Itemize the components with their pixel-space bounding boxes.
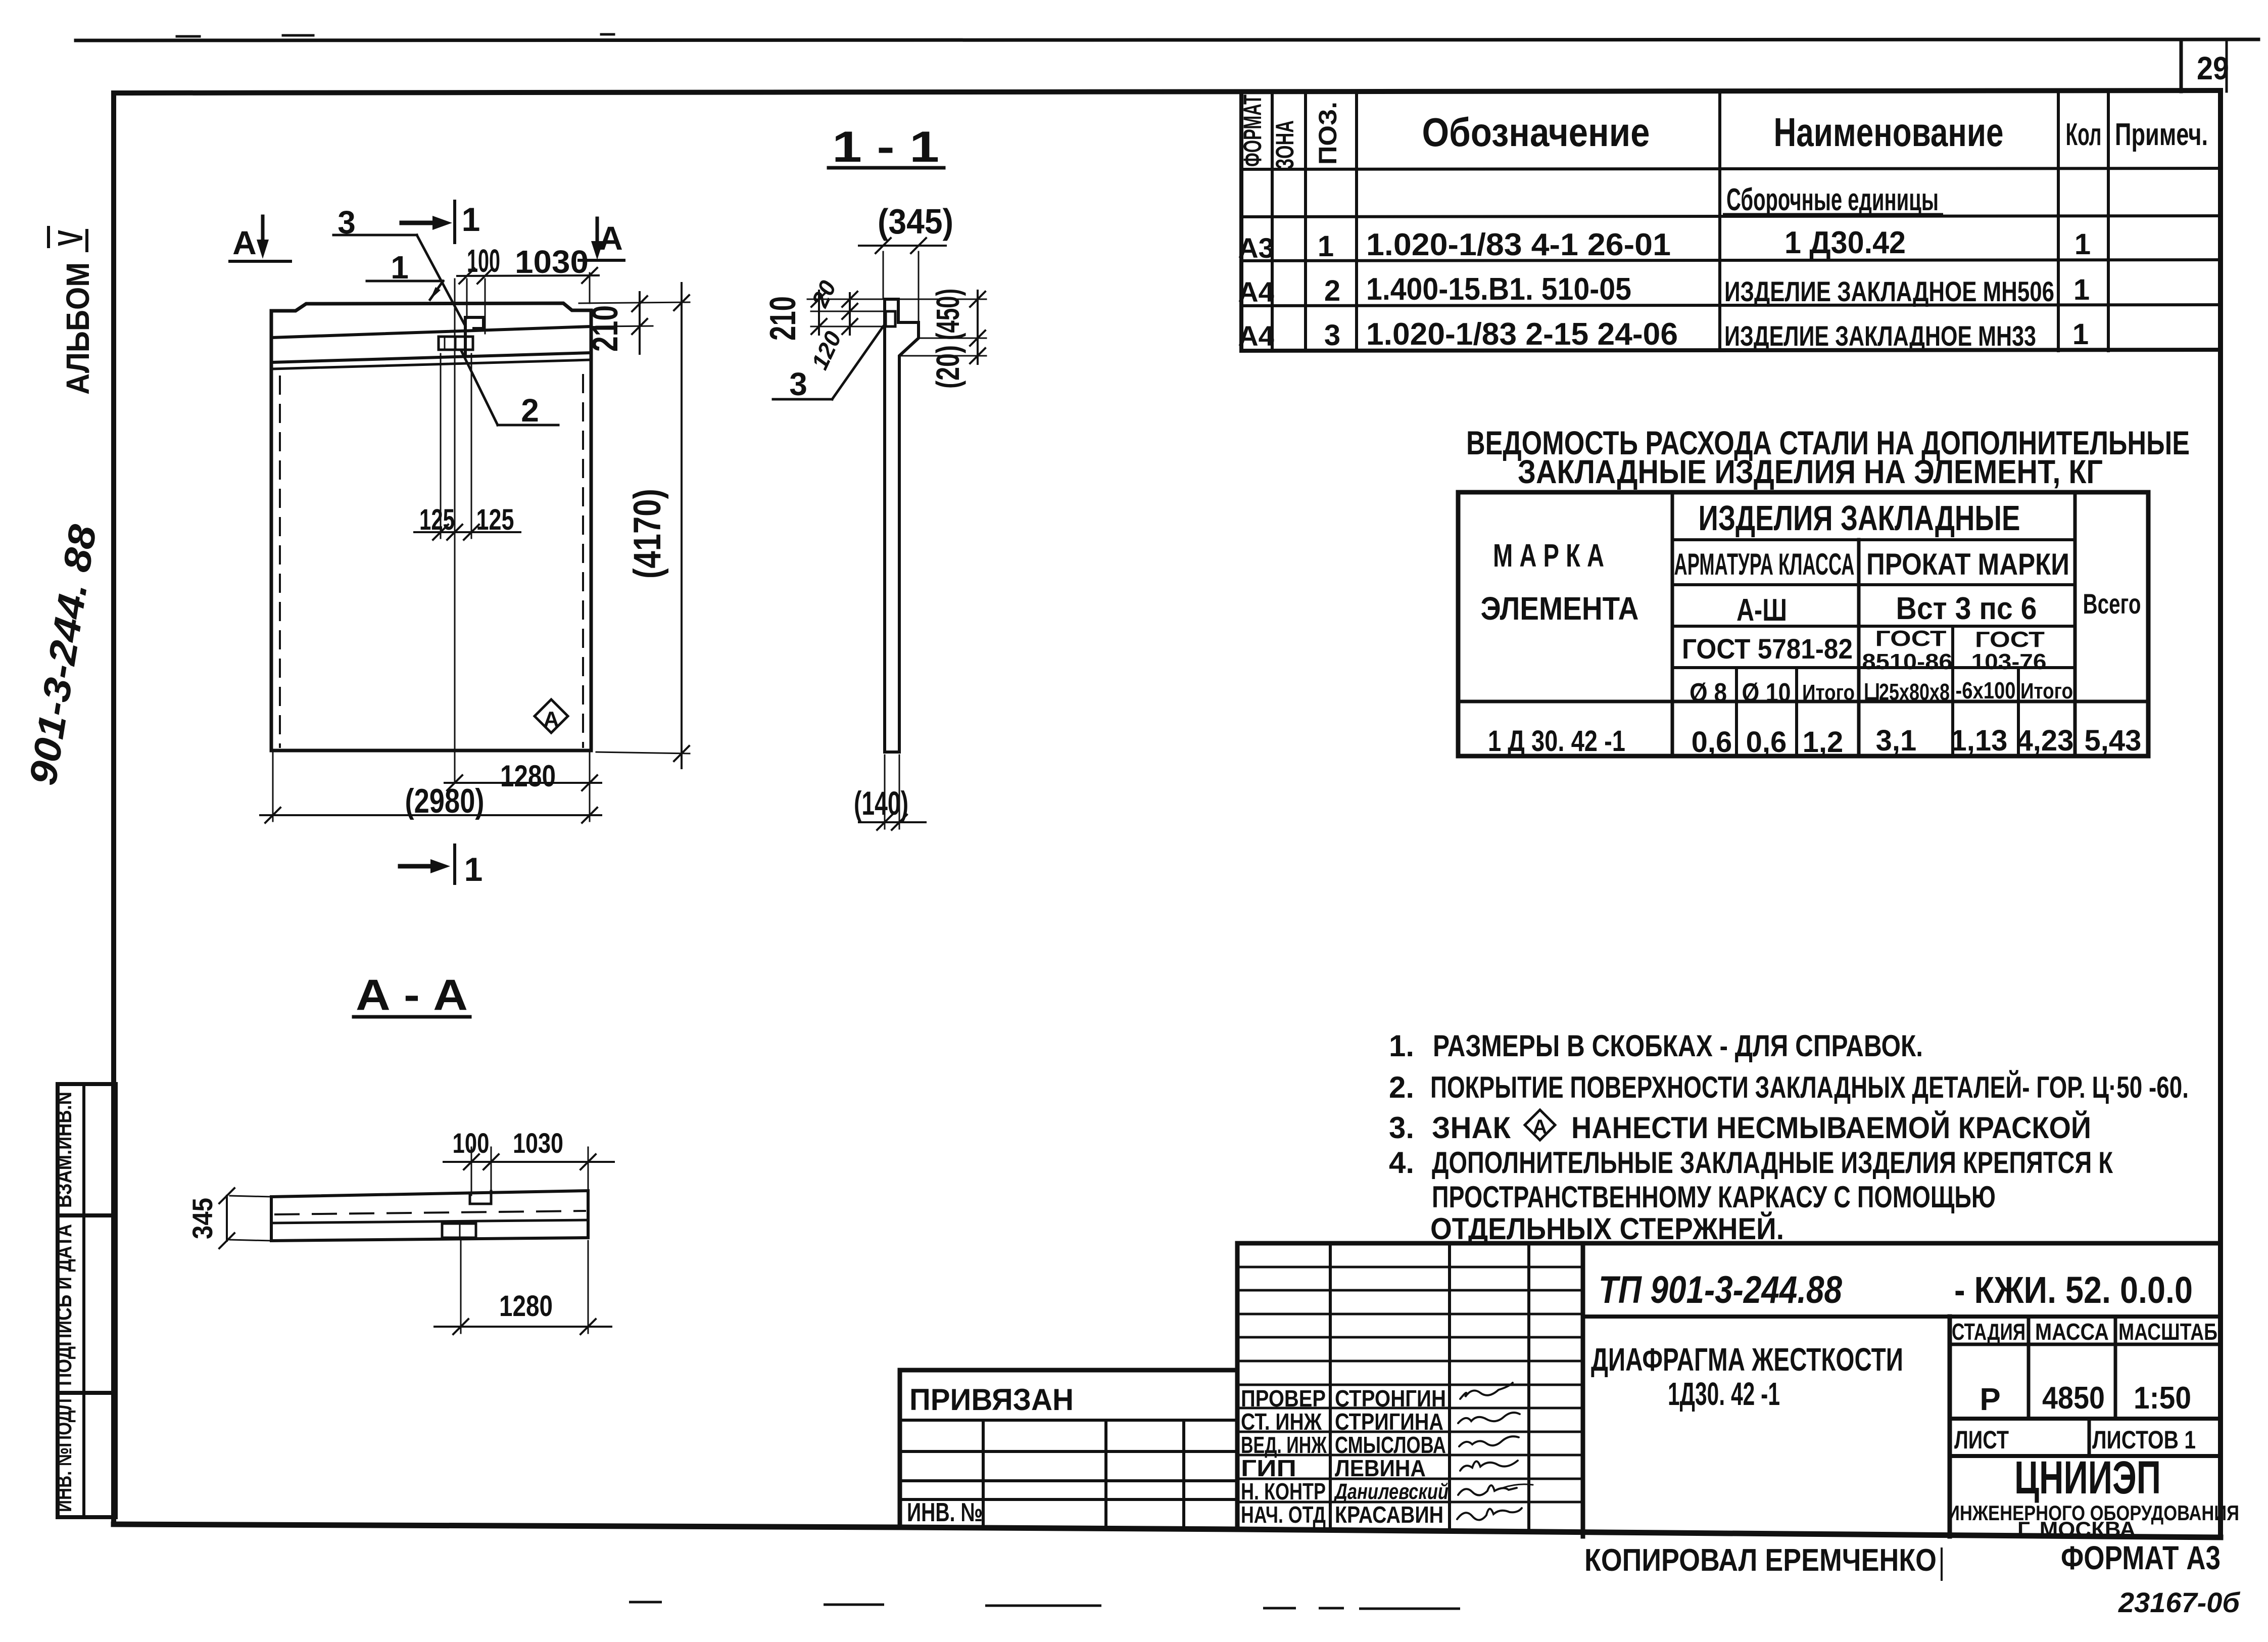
- dim (450)/(20) right: [977, 291, 979, 364]
- margin stamp boxes: [58, 1084, 116, 1517]
- panel band line 2: [271, 353, 591, 362]
- embed item 3 plate (front view): [465, 317, 484, 354]
- svg-text:V: V: [51, 230, 90, 246]
- svg-text:1 - 1: 1 - 1: [832, 123, 939, 171]
- svg-text:Итого: Итого: [2020, 679, 2073, 703]
- bottom sheet texts: [1584, 1539, 2240, 1618]
- svg-text:М А Р К А: М А Р К А: [1493, 537, 1604, 574]
- svg-text:1.400-15.В1. 510-05: 1.400-15.В1. 510-05: [1366, 272, 1631, 307]
- svg-text:ЭЛЕМЕНТА: ЭЛЕМЕНТА: [1481, 590, 1639, 627]
- panel outline: [271, 303, 591, 750]
- svg-text:СМЫСЛОВА: СМЫСЛОВА: [1335, 1432, 1446, 1458]
- svg-text:2.: 2.: [1389, 1070, 1414, 1104]
- dim 1280 A-A: [460, 1241, 462, 1333]
- svg-text:Н. КОНТР: Н. КОНТР: [1241, 1478, 1326, 1505]
- svg-text:ИЗДЕЛИЯ ЗАКЛАДНЫЕ: ИЗДЕЛИЯ ЗАКЛАДНЫЕ: [1699, 498, 2020, 538]
- svg-text:ЛИСТ: ЛИСТ: [1954, 1426, 2009, 1454]
- title block: [900, 1243, 2221, 1536]
- steel consumption table: [1458, 492, 2148, 756]
- svg-text:125: 125: [419, 503, 455, 536]
- svg-text:ФОРМАТ А3: ФОРМАТ А3: [2061, 1539, 2221, 1576]
- page number box divider: [2180, 40, 2183, 91]
- svg-text:(345): (345): [878, 202, 953, 241]
- svg-text:0,6: 0,6: [1746, 726, 1787, 759]
- svg-text:СТАДИЯ: СТАДИЯ: [1952, 1319, 2025, 1345]
- svg-text:210: 210: [585, 305, 625, 352]
- svg-text:1280: 1280: [500, 759, 556, 793]
- dashed edge line left: [279, 377, 281, 747]
- svg-text:Г. МОСКВА: Г. МОСКВА: [2017, 1517, 2136, 1541]
- signature grid horizontals: [1237, 1266, 1583, 1269]
- svg-text:ФОРМАТ: ФОРМАТ: [1238, 95, 1267, 167]
- svg-text:АРМАТУРА КЛАССА: АРМАТУРА КЛАССА: [1674, 547, 1855, 581]
- left ext lines: [807, 299, 885, 300]
- svg-text:ДИАФРАГМА ЖЕСТКОСТИ: ДИАФРАГМА ЖЕСТКОСТИ: [1591, 1341, 1903, 1378]
- svg-text:СТРИГИНА: СТРИГИНА: [1335, 1409, 1443, 1435]
- dim 210 left: [818, 291, 820, 335]
- steel consumption statement heading: [1466, 424, 2190, 490]
- svg-text:ПРИВЯЗАН: ПРИВЯЗАН: [909, 1383, 1074, 1417]
- svg-text:Кол: Кол: [2066, 117, 2102, 152]
- dim 210 right: [579, 302, 690, 303]
- svg-text:100: 100: [453, 1127, 490, 1159]
- svg-text:ВЗАМ.ИНВ.N: ВЗАМ.ИНВ.N: [52, 1092, 76, 1208]
- svg-text:3.: 3.: [1389, 1111, 1414, 1145]
- notes: [1389, 1029, 2189, 1246]
- leader 2: [461, 351, 498, 425]
- svg-text:Вст 3 пс 6: Вст 3 пс 6: [1896, 591, 2037, 626]
- svg-text:ПРОКАТ МАРКИ: ПРОКАТ МАРКИ: [1866, 547, 2069, 581]
- svg-text:(20): (20): [930, 345, 966, 389]
- svg-text:А3: А3: [1238, 232, 1274, 264]
- dim 20/120 left: [849, 293, 851, 335]
- svg-text:СТ. ИНЖ: СТ. ИНЖ: [1241, 1409, 1322, 1435]
- svg-text:29: 29: [2197, 50, 2229, 86]
- svg-text:1 Д30.42: 1 Д30.42: [1784, 225, 1906, 260]
- svg-text:ПОДПИСЬ И ДАТА: ПОДПИСЬ И ДАТА: [52, 1224, 76, 1386]
- divider signature/name area: [1581, 1243, 1585, 1536]
- svg-text:3,1: 3,1: [1876, 724, 1917, 757]
- slab dashed centroid line: [275, 1211, 585, 1214]
- svg-text:1.020-1/83 4-1 26-01: 1.020-1/83 4-1 26-01: [1366, 227, 1671, 262]
- svg-text:ИНВ. №ПОДЛ: ИНВ. №ПОДЛ: [52, 1398, 76, 1512]
- svg-text:ДОПОЛНИТЕЛЬНЫЕ ЗАКЛАДНЫЕ ИЗД: ДОПОЛНИТЕЛЬНЫЕ ЗАКЛАДНЫЕ ИЗДЕЛИЯ КРЕПЯТС…: [1432, 1146, 2113, 1180]
- svg-text:ЦНИИЭП: ЦНИИЭП: [2014, 1452, 2161, 1504]
- svg-text:- КЖИ. 52. 0.0.0: - КЖИ. 52. 0.0.0: [1954, 1269, 2193, 1311]
- svg-text:Наименование: Наименование: [1774, 110, 2004, 155]
- svg-text:5,43: 5,43: [2085, 724, 2142, 757]
- section mark 1 top: [453, 201, 456, 243]
- svg-text:100: 100: [467, 243, 500, 279]
- section mark A left: [261, 216, 265, 249]
- dim (4170) right: [681, 283, 683, 768]
- svg-text:А - А: А - А: [356, 971, 468, 1019]
- svg-text:8510-86: 8510-86: [1862, 649, 1953, 674]
- svg-text:ЗАКЛАДНЫЕ ИЗДЕЛИЯ НА ЭЛЕМЕН: ЗАКЛАДНЫЕ ИЗДЕЛИЯ НА ЭЛЕМЕНТ, КГ: [1518, 453, 2103, 490]
- divider name/stamp area: [1948, 1317, 1952, 1536]
- svg-text:1: 1: [462, 201, 480, 238]
- svg-text:КОПИРОВАЛ ЕРЕМЧЕНКО: КОПИРОВАЛ ЕРЕМЧЕНКО: [1584, 1543, 1937, 1578]
- stage/mass/scale verticals: [2027, 1317, 2031, 1419]
- leader 3: [333, 234, 417, 237]
- svg-text:1: 1: [1318, 230, 1334, 263]
- svg-text:125: 125: [476, 503, 514, 536]
- svg-text:ГИП: ГИП: [1241, 1455, 1296, 1481]
- svg-text:23167-0б: 23167-0б: [2118, 1586, 2240, 1618]
- svg-text:А-Ш: А-Ш: [1736, 593, 1787, 628]
- signature grid verticals: [1329, 1243, 1332, 1529]
- section mark A right: [596, 218, 599, 251]
- svg-text:ИЗДЕЛИЕ ЗАКЛАДНОЕ МН33: ИЗДЕЛИЕ ЗАКЛАДНОЕ МН33: [1724, 320, 2036, 352]
- svg-text:Р: Р: [1980, 1382, 2000, 1417]
- overbar and underline of V: [47, 227, 50, 247]
- dim (345): [859, 245, 946, 247]
- channel profile symbol before 25x80x8: [1866, 683, 1877, 698]
- svg-text:МАСШТАБ: МАСШТАБ: [2118, 1319, 2217, 1345]
- margin label: АЛЬБОМ V: [51, 230, 96, 395]
- svg-text:ЛЕВИНА: ЛЕВИНА: [1335, 1455, 1426, 1481]
- svg-text:1,2: 1,2: [1803, 726, 1844, 759]
- svg-text:ЗОНА: ЗОНА: [1271, 120, 1299, 169]
- svg-text:ЛИСТОВ 1: ЛИСТОВ 1: [2092, 1426, 2196, 1454]
- svg-text:КРАСАВИН: КРАСАВИН: [1335, 1502, 1443, 1528]
- right stamp horizontals: [1583, 1315, 2221, 1319]
- specification table (top right): [1241, 91, 2221, 351]
- leader 1: [367, 280, 443, 283]
- bottom embed plate: [442, 1224, 476, 1238]
- svg-text:1.020-1/83 2-15 24-06: 1.020-1/83 2-15 24-06: [1366, 317, 1678, 352]
- svg-text:3: 3: [1324, 319, 1340, 352]
- section 1-1 title underline: [829, 166, 944, 170]
- svg-text:25х80х8: 25х80х8: [1879, 679, 1950, 705]
- svg-text:345: 345: [186, 1198, 218, 1239]
- svg-text:ИНВ. №: ИНВ. №: [907, 1498, 983, 1527]
- dashed edge line right: [582, 375, 584, 747]
- top embed notch: [470, 1191, 491, 1204]
- svg-text:ПРОВЕР: ПРОВЕР: [1241, 1385, 1326, 1412]
- svg-text:ОТДЕЛЬНЫХ СТЕРЖНЕЙ.: ОТДЕЛЬНЫХ СТЕРЖНЕЙ.: [1430, 1212, 1784, 1246]
- slab inner solid line: [271, 1220, 588, 1223]
- bottom separator mark after Еремченко: [1941, 1547, 1943, 1581]
- panel band line 1: [271, 326, 591, 338]
- svg-text:4850: 4850: [2042, 1381, 2105, 1416]
- sheet/sheets divider: [2088, 1419, 2091, 1456]
- dim (140) bottom: [884, 755, 886, 829]
- svg-text:Всего: Всего: [2083, 588, 2141, 620]
- svg-text:1Д30. 42 -1: 1Д30. 42 -1: [1668, 1376, 1780, 1412]
- svg-text:ГОСТ: ГОСТ: [1875, 626, 1947, 651]
- svg-text:1: 1: [2072, 318, 2089, 351]
- svg-text:А: А: [543, 707, 559, 732]
- right ext lines: [898, 299, 986, 300]
- svg-text:А4: А4: [1238, 320, 1274, 352]
- svg-text:НАЧ. ОТД: НАЧ. ОТД: [1241, 1502, 1326, 1528]
- svg-text:ВЕД. ИНЖ: ВЕД. ИНЖ: [1241, 1432, 1327, 1458]
- svg-text:(450): (450): [930, 289, 966, 340]
- title block left border: [1235, 1243, 1240, 1529]
- svg-text:-6х100: -6х100: [1956, 677, 2016, 703]
- svg-text:МАССА: МАССА: [2035, 1319, 2109, 1345]
- svg-text:ЗНАК: ЗНАК: [1432, 1111, 1511, 1145]
- svg-text:(140): (140): [854, 784, 908, 822]
- embed item 2 plate (front view): [439, 337, 473, 350]
- section mark 1 bottom: [453, 845, 456, 883]
- svg-text:А: А: [1533, 1116, 1548, 1138]
- signature squiggles: [1457, 1383, 1533, 1520]
- leader 3 in section: [773, 398, 832, 401]
- section A-A title underline: [354, 1015, 470, 1019]
- dim 125/125 dim line: [414, 531, 520, 533]
- svg-text:2: 2: [521, 392, 539, 429]
- dim 1280: [445, 782, 601, 784]
- annex box (Привязан): [900, 1368, 1237, 1373]
- svg-text:1: 1: [2073, 273, 2090, 306]
- svg-text:Ø 10: Ø 10: [1742, 678, 1791, 708]
- svg-text:ГОСТ: ГОСТ: [1975, 627, 2045, 652]
- svg-text:НАНЕСТИ НЕСМЫВАЕМОЙ КРАСКОЙ: НАНЕСТИ НЕСМЫВАЕМОЙ КРАСКОЙ: [1571, 1111, 2091, 1145]
- svg-text:2: 2: [1324, 274, 1340, 307]
- dim (2980): [260, 814, 601, 816]
- embed item 3 plate in section: [886, 311, 895, 326]
- bottom scan dashes: [629, 1602, 1460, 1609]
- svg-text:1: 1: [391, 249, 409, 286]
- svg-text:ИЗДЕЛИЕ ЗАКЛАДНОЕ МН506: ИЗДЕЛИЕ ЗАКЛАДНОЕ МН506: [1724, 275, 2054, 307]
- section 1-1 wall profile: [885, 299, 919, 752]
- svg-text:А4: А4: [1238, 276, 1274, 308]
- underline of III in rebar class: [1766, 625, 1787, 627]
- title block top border: [1237, 1241, 2221, 1246]
- svg-text:1,13: 1,13: [1951, 724, 2008, 757]
- sheet top scan marks: [177, 35, 200, 38]
- dim 100/1030 top: dim line: [457, 275, 599, 276]
- svg-text:СТРОНГИН: СТРОНГИН: [1335, 1385, 1446, 1412]
- dim 345 left A-A: [226, 1196, 228, 1241]
- svg-text:103-76: 103-76: [1971, 649, 2047, 674]
- svg-text:(4170): (4170): [626, 489, 669, 579]
- svg-text:4,23: 4,23: [2017, 724, 2074, 757]
- svg-text:ГОСТ 5781-82: ГОСТ 5781-82: [1682, 633, 1853, 665]
- svg-text:А: А: [232, 224, 257, 261]
- svg-text:4.: 4.: [1389, 1146, 1414, 1180]
- note 3 diamond quality mark: [1525, 1110, 1555, 1140]
- svg-text:Итого: Итого: [1802, 680, 1855, 705]
- svg-text:Обозначение: Обозначение: [1422, 110, 1650, 155]
- svg-text:210: 210: [763, 296, 803, 341]
- svg-text:А: А: [599, 219, 623, 257]
- svg-text:Примеч.: Примеч.: [2115, 117, 2208, 152]
- svg-text:АЛЬБОМ: АЛЬБОМ: [60, 262, 96, 395]
- svg-text:3: 3: [337, 204, 356, 241]
- svg-text:1: 1: [464, 851, 483, 888]
- svg-text:ПОКРЫТИЕ ПОВЕРХНОСТИ ЗАКЛАДНЫ: ПОКРЫТИЕ ПОВЕРХНОСТИ ЗАКЛАДНЫХ ДЕТАЛЕЙ- …: [1430, 1070, 2189, 1104]
- svg-text:1.: 1.: [1389, 1029, 1414, 1063]
- dim 100/1030 A-A: [444, 1161, 614, 1163]
- svg-text:1: 1: [2074, 228, 2091, 261]
- svg-text:(2980): (2980): [405, 782, 485, 820]
- svg-text:1030: 1030: [515, 244, 589, 280]
- sheet top edge line: [76, 39, 2258, 40]
- svg-text:ПОЗ.: ПОЗ.: [1314, 102, 1342, 165]
- svg-text:0,6: 0,6: [1692, 726, 1732, 759]
- underline of Сборочные единицы: [1723, 213, 1943, 216]
- svg-text:3: 3: [789, 366, 807, 402]
- svg-text:ТП 901-3-244.88: ТП 901-3-244.88: [1599, 1269, 1843, 1311]
- slab outline: [271, 1191, 588, 1241]
- svg-text:1:50: 1:50: [2134, 1381, 2191, 1416]
- svg-text:Данилевский: Данилевский: [1333, 1479, 1449, 1504]
- svg-text:Сборочные единицы: Сборочные единицы: [1726, 182, 1939, 217]
- svg-text:ПРОСТРАНСТВЕННОМУ КАРКАСУ С: ПРОСТРАНСТВЕННОМУ КАРКАСУ С ПОМОЩЬЮ: [1432, 1180, 1996, 1214]
- svg-text:1280: 1280: [499, 1290, 553, 1323]
- dim 125/125 ext lines: [440, 354, 442, 538]
- svg-text:1030: 1030: [513, 1127, 563, 1159]
- svg-text:Ø 8: Ø 8: [1690, 678, 1727, 708]
- panel band line 3: [271, 360, 591, 369]
- sheet right edge stub: [2226, 40, 2228, 91]
- svg-text:1 Д 30. 42 -1: 1 Д 30. 42 -1: [1488, 725, 1625, 758]
- quality mark diamond on panel: [535, 699, 568, 733]
- svg-text:РАЗМЕРЫ В СКОБКАХ - ДЛЯ СПР: РАЗМЕРЫ В СКОБКАХ - ДЛЯ СПРАВОК.: [1433, 1029, 1923, 1063]
